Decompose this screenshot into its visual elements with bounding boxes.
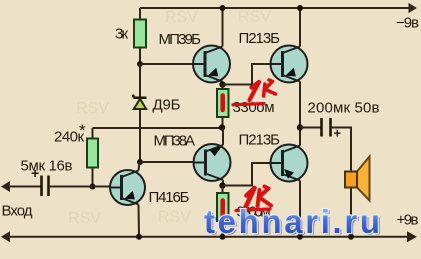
svg-text:3к: 3к — [115, 26, 128, 43]
wire node A to VT1 base — [140, 63, 194, 65]
wire VT5 emitter to bottom rail — [138, 205, 141, 237]
wire input to capacitor C1 — [8, 186, 41, 188]
svg-text:330ом: 330ом — [233, 99, 275, 116]
svg-text:Д9Б: Д9Б — [153, 97, 181, 114]
annotation handwritten 1к (bottom) — [245, 187, 272, 210]
wire top supply rail — [140, 7, 410, 9]
svg-text:RSV: RSV — [68, 210, 101, 227]
node C junction (VT1 emitter / R2 / VT2 base) — [219, 81, 225, 87]
svg-text:Вход: Вход — [2, 203, 33, 220]
wire feedback R3 top run (crosses diode line, no junction) — [93, 127, 222, 129]
resistor R3 240к feedback — [54, 121, 98, 187]
wire R1 bottom to node A — [139, 48, 141, 65]
capacitor C1 5мк 16в — [21, 158, 73, 197]
arrow +9v rail end — [407, 231, 417, 242]
transistor VT4 П213Б (bottom) — [239, 132, 308, 182]
node E junction (VT3 emitter / R4 / VT4 base) — [219, 182, 225, 188]
arrow input left — [1, 181, 10, 192]
speaker BA1 — [345, 157, 370, 201]
svg-text:МП39Б: МП39Б — [159, 31, 202, 48]
output node junction — [297, 124, 303, 130]
node F junction (input / R3 / VT5 base) — [90, 184, 96, 190]
wire bottom supply rail — [8, 236, 410, 238]
svg-text:5мк 16в: 5мк 16в — [21, 158, 73, 175]
svg-text:330ом: 330ом — [237, 204, 271, 221]
junction VT2 collector on top rail — [297, 5, 303, 11]
wire VT4 collector to output node — [299, 128, 301, 146]
arrow -9v rail end — [409, 3, 418, 13]
annotation red mark on R4 — [220, 201, 225, 218]
annotation red strike over lower 330ом — [236, 209, 270, 211]
wire VT2 emitter to output node — [299, 82, 301, 128]
svg-text:П213Б: П213Б — [239, 132, 281, 149]
junction VT1 collector on top rail — [220, 5, 226, 11]
svg-text:П416Б: П416Б — [149, 189, 190, 206]
svg-text:*: * — [79, 121, 86, 140]
wire diode VD1 to node B (crosses feedback wire) — [139, 110, 141, 163]
wire output node to capacitor C2 — [300, 127, 321, 129]
svg-text:МП38А: МП38А — [154, 133, 196, 150]
svg-text:RSV: RSV — [238, 9, 271, 26]
annotation red strike over 330ом — [233, 104, 264, 105]
svg-text:+9в: +9в — [397, 212, 419, 229]
wire VT5 collector to node B — [139, 162, 140, 171]
annotation handwritten 1к (top) — [250, 80, 276, 100]
wire C2 to speaker — [332, 128, 352, 237]
wire node C to VT2 base — [223, 64, 271, 85]
svg-text:−9в: −9в — [396, 15, 419, 32]
wire VT4 emitter to bottom rail — [299, 181, 301, 237]
svg-text:RSV: RSV — [76, 100, 109, 117]
wire VT3 emitter to node E — [222, 180, 224, 186]
transistor VT1 МП39Б — [159, 31, 231, 83]
annotation red mark on R2 — [220, 96, 225, 111]
wire VT1 collector to top rail — [222, 8, 224, 47]
wire VT3 collector to node D — [222, 128, 224, 146]
svg-text:RSV: RSV — [165, 9, 198, 26]
wire node E to VT4 base — [223, 163, 271, 186]
resistor R4 330ом (marked 1к) — [217, 186, 271, 237]
node B junction (diode / VT5 collector / VT3 base) — [137, 159, 143, 165]
junction R4 on bottom rail — [220, 234, 226, 240]
node D junction (R2 / VT3 collector / feedback R3) — [219, 124, 225, 130]
arrow bottom rail left — [1, 231, 10, 242]
junction VT5 emitter on bottom rail — [136, 234, 142, 240]
transistor VT2 П213Б (top) — [239, 30, 308, 83]
resistor R2 330ом (marked 1к) — [217, 85, 275, 128]
junction VT4 emitter on bottom rail — [297, 234, 303, 240]
resistor R1 3к — [115, 20, 146, 48]
transistor VT5 П416Б — [110, 170, 190, 206]
svg-text:200мк 50в: 200мк 50в — [308, 100, 380, 117]
wire C1 to VT5 base — [50, 186, 111, 188]
svg-text:П213Б: П213Б — [239, 30, 281, 47]
wire VT1 emitter to node C — [222, 82, 224, 85]
transistor VT3 МП38А — [154, 133, 231, 182]
node A junction (R1 / VT1 base / VD1) — [137, 61, 143, 67]
wire from top rail to R1 — [139, 8, 141, 20]
capacitor C2 200мк 50в — [308, 100, 380, 141]
diode VD1 Д9Б — [133, 95, 181, 114]
svg-text:RSV: RSV — [158, 209, 191, 226]
wire node B to VT3 base — [140, 161, 194, 163]
junction speaker on bottom rail — [348, 234, 354, 240]
wire node A to diode VD1 — [139, 64, 141, 97]
wire VT2 collector to top rail — [299, 8, 301, 47]
